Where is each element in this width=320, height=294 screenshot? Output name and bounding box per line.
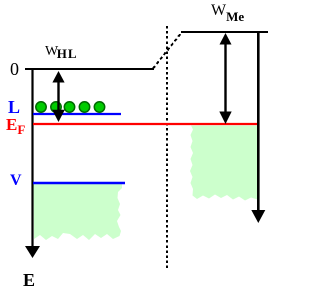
W_HL double arrow <box>57 78 59 112</box>
valence band V (left light-green region) <box>34 184 123 240</box>
valence level V (blue line) <box>33 182 125 184</box>
Fermi level E_F (red line) <box>33 123 257 125</box>
label L <box>8 98 20 116</box>
conduction level L (blue line) <box>33 113 121 115</box>
label E_F <box>6 116 25 136</box>
metal filled states (right light-green region) <box>190 126 258 201</box>
energy axis E (left, arrow down) <box>31 68 33 247</box>
label V <box>10 173 22 189</box>
label 0 <box>10 60 19 78</box>
electrons on L level (5 green circles) <box>36 102 105 112</box>
dotted interface line <box>166 26 168 268</box>
label E (axis) <box>23 271 35 289</box>
dashed diagonal connecting vacuum levels <box>153 32 182 69</box>
metal-side axis arrow (right, arrow down) <box>257 31 260 211</box>
label W_HL <box>45 45 78 60</box>
W_Me double arrow <box>224 40 226 116</box>
metal vacuum level line <box>181 31 268 33</box>
label W_Me <box>211 3 244 23</box>
0-level line (semiconductor vacuum level) <box>25 68 154 70</box>
